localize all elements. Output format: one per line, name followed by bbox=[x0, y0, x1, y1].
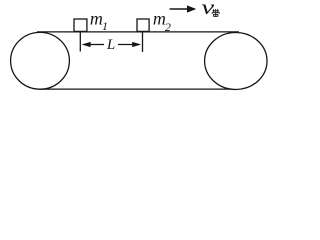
belt top line bbox=[37, 31, 239, 33]
svg-text:v: v bbox=[201, 0, 215, 19]
svg-text:1: 1 bbox=[102, 19, 108, 33]
svg-text:2: 2 bbox=[165, 20, 171, 34]
dimension tick right bbox=[142, 32, 144, 52]
block m1 bbox=[74, 19, 87, 31]
dimension tick left bbox=[79, 32, 81, 52]
block m2 bbox=[137, 19, 149, 31]
dimension arrowhead right bbox=[132, 42, 141, 47]
svg-text:L: L bbox=[106, 37, 115, 53]
dimension shaft left bbox=[88, 44, 104, 46]
label dai (CJK 带 subscript, drawn as strokes) bbox=[212, 9, 219, 17]
left pulley bbox=[11, 32, 70, 89]
velocity arrow shaft bbox=[170, 8, 188, 10]
velocity arrowhead bbox=[187, 5, 196, 12]
belt bottom line bbox=[40, 88, 232, 90]
svg-text:m: m bbox=[90, 9, 103, 29]
dimension arrowhead left bbox=[82, 42, 91, 47]
dimension shaft right bbox=[118, 44, 135, 46]
right pulley bbox=[205, 33, 267, 90]
